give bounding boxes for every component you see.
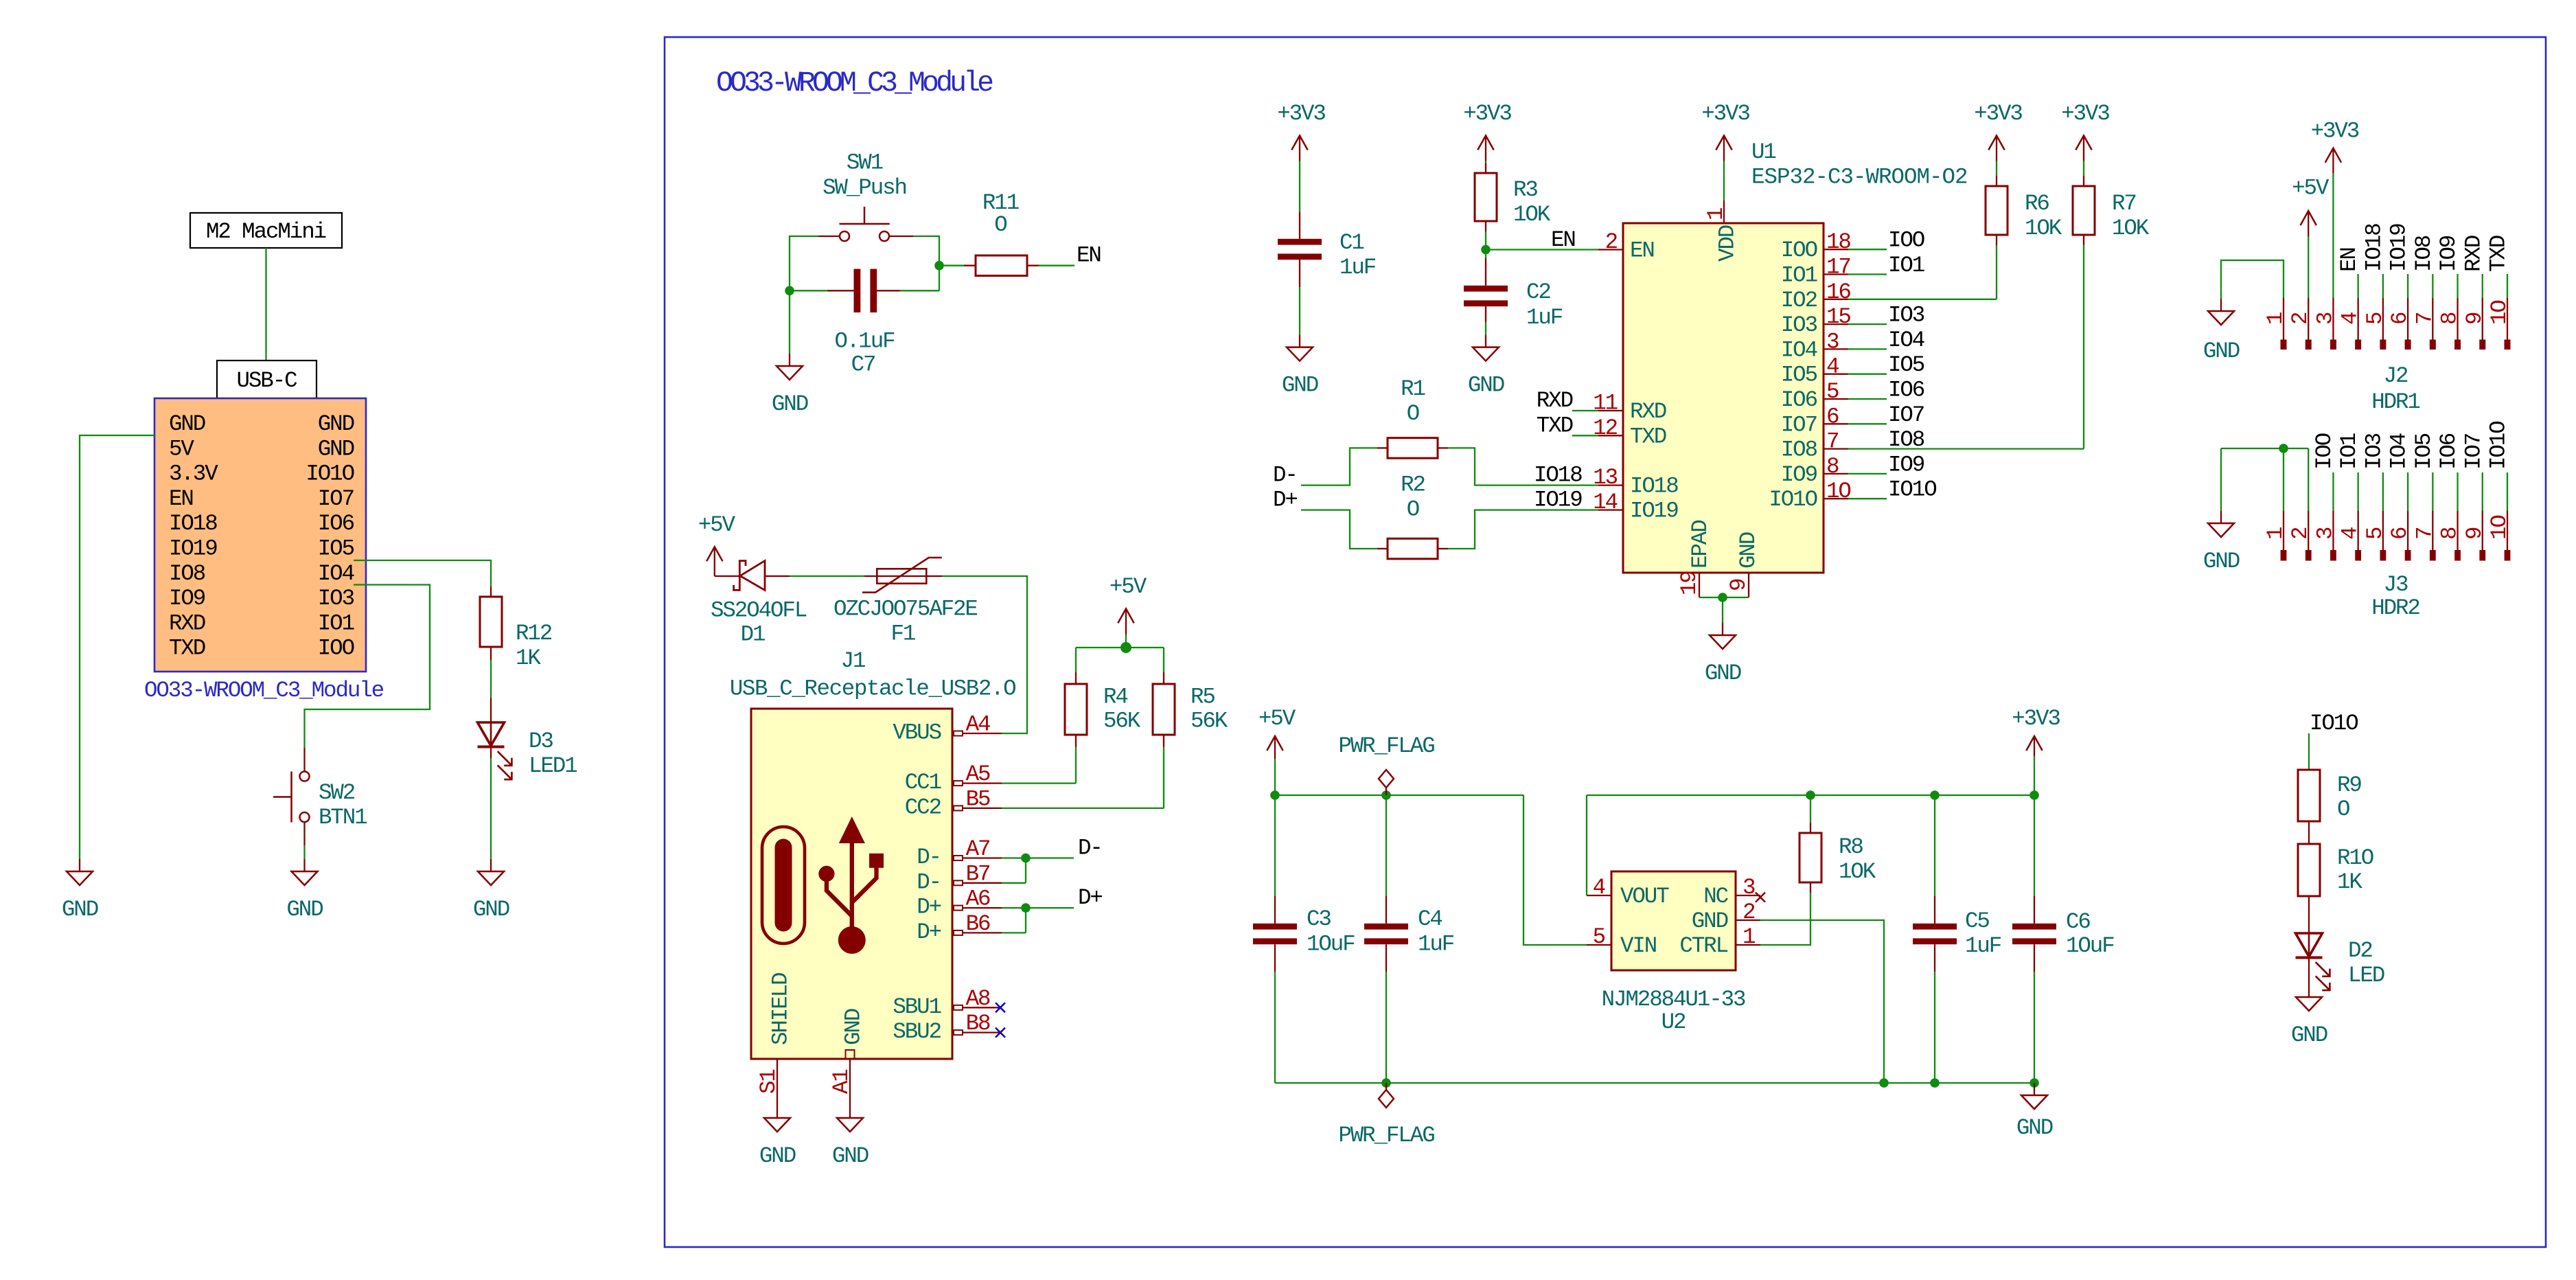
resistor R3 10K xyxy=(1485,163,1486,173)
svg-text:IO5: IO5 xyxy=(2411,433,2437,470)
wire U1 IO8 to R7 xyxy=(1848,448,2084,449)
svg-text:J3: J3 xyxy=(2384,572,2408,597)
no-connect X at J1 SBU2 xyxy=(996,1028,1005,1038)
block M2 MacMini xyxy=(190,213,342,248)
wire module IO4 to SW2 xyxy=(305,585,430,748)
wire C7 to ground xyxy=(789,290,790,354)
svg-text:IO5: IO5 xyxy=(318,536,354,562)
svg-text:1: 1 xyxy=(2263,312,2288,325)
U2 pin 4 VOUT xyxy=(1587,895,1611,896)
svg-text:A6: A6 xyxy=(966,887,990,912)
wire M2 MacMini to USB-C xyxy=(265,248,266,361)
svg-text:VDD: VDD xyxy=(1715,225,1740,262)
svg-text:U1: U1 xyxy=(1751,139,1775,165)
svg-text:SHIELD: SHIELD xyxy=(768,973,794,1045)
svg-text:1OK: 1OK xyxy=(2025,216,2062,241)
no-connect X at J1 SBU1 xyxy=(996,1003,1005,1012)
svg-text:D-: D- xyxy=(1078,836,1102,861)
svg-text:1OK: 1OK xyxy=(2112,216,2150,241)
svg-text:USB_C_Receptacle_USB2.O: USB_C_Receptacle_USB2.O xyxy=(730,676,1015,702)
svg-text:D+: D+ xyxy=(1078,885,1102,911)
svg-text:D+: D+ xyxy=(917,919,941,945)
J1 pin B5 CC2 xyxy=(954,805,1002,810)
power +3V3 above U1 VDD xyxy=(1716,135,1732,161)
svg-text:6: 6 xyxy=(2387,312,2413,325)
U1 pin 14 IO19 xyxy=(1598,509,1623,510)
wire module GND to ground xyxy=(80,435,154,859)
U1 pin 3 IO4 xyxy=(1824,348,1848,350)
svg-text:1K: 1K xyxy=(2337,869,2362,895)
junction C6 top xyxy=(2029,790,2039,800)
svg-text:C1: C1 xyxy=(1339,230,1364,255)
USB logo xyxy=(762,816,884,954)
svg-text:IO8: IO8 xyxy=(169,561,205,586)
ground for D3 xyxy=(478,859,504,885)
svg-text:IO7: IO7 xyxy=(1781,412,1817,437)
svg-text:A1: A1 xyxy=(829,1070,854,1094)
wire J2 pin 6 label stub xyxy=(2407,274,2408,298)
svg-text:RXD: RXD xyxy=(1537,388,1573,413)
U1 pin 13 IO18 xyxy=(1598,484,1623,485)
svg-text:1: 1 xyxy=(1703,208,1729,220)
wire C1 to ground xyxy=(1299,287,1300,335)
svg-text:IO19: IO19 xyxy=(169,536,217,562)
svg-text:IO6: IO6 xyxy=(318,511,354,536)
U2 pin 5 VIN xyxy=(1587,944,1611,946)
svg-text:VIN: VIN xyxy=(1620,933,1656,959)
J1 pin S1 SHIELD xyxy=(777,1059,778,1106)
svg-text:1O: 1O xyxy=(1826,479,1850,504)
power +5V above C3 xyxy=(1267,736,1283,759)
svg-text:R9: R9 xyxy=(2337,773,2361,798)
svg-text:TXD: TXD xyxy=(169,636,205,661)
J3 pin 7 xyxy=(2432,511,2433,550)
wire D1 to F1 xyxy=(790,575,864,577)
resistor R10 1K xyxy=(2298,844,2320,896)
U1 pin 2 EN xyxy=(1598,249,1623,250)
svg-text:O: O xyxy=(1407,401,1419,426)
svg-text:TXD: TXD xyxy=(2485,236,2511,272)
svg-text:1O: 1O xyxy=(2487,516,2512,540)
J1 pin B8 SBU2 xyxy=(954,1030,1002,1035)
junction PWR_FLAG bottom xyxy=(1381,1078,1391,1088)
regulator U2 NJM2884U1-33 body xyxy=(1611,871,1736,970)
svg-text:A4: A4 xyxy=(966,712,990,738)
svg-text:19: 19 xyxy=(1677,571,1702,595)
svg-text:1uF: 1uF xyxy=(1526,305,1563,330)
svg-text:EN: EN xyxy=(1077,243,1101,268)
svg-text:8: 8 xyxy=(1826,454,1839,479)
svg-text:RXD: RXD xyxy=(169,610,205,636)
capacitor C3 10uF xyxy=(1274,795,1276,896)
svg-text:5: 5 xyxy=(2362,312,2388,325)
resistor R7 10K xyxy=(2083,176,2084,186)
U1 pin 12 TXD xyxy=(1598,435,1623,436)
wire SW1 right to R11 node xyxy=(914,236,939,290)
svg-text:8: 8 xyxy=(2437,527,2463,540)
svg-text:IO3: IO3 xyxy=(2361,433,2387,470)
resistor R4 56K xyxy=(1075,648,1077,672)
svg-text:2: 2 xyxy=(1605,229,1618,255)
svg-text:USB-C: USB-C xyxy=(236,368,297,393)
svg-text:EN: EN xyxy=(1630,238,1654,264)
junction D+ xyxy=(1021,903,1031,913)
power +3V3 above R7 xyxy=(2075,135,2091,161)
svg-text:GND: GND xyxy=(832,1143,869,1169)
resistor R2 0 xyxy=(1377,548,1388,549)
svg-text:IOO: IOO xyxy=(1888,228,1924,253)
svg-text:6: 6 xyxy=(2387,527,2413,540)
J2 pin 1 xyxy=(2283,298,2284,340)
svg-text:D3: D3 xyxy=(529,729,553,754)
svg-text:O: O xyxy=(994,212,1007,238)
svg-text:1uF: 1uF xyxy=(1339,255,1376,280)
svg-text:D1: D1 xyxy=(741,622,765,648)
svg-text:GND: GND xyxy=(772,391,808,417)
svg-text:IO6: IO6 xyxy=(1888,378,1924,403)
svg-text:SBU2: SBU2 xyxy=(893,1019,941,1044)
U1 pin 7 IO8 xyxy=(1824,448,1848,449)
svg-text:BTN1: BTN1 xyxy=(319,805,367,830)
J2 pin 2 xyxy=(2308,298,2309,340)
wire R11 to EN label xyxy=(1039,265,1074,266)
svg-text:LED1: LED1 xyxy=(529,753,577,779)
svg-text:EN: EN xyxy=(1551,227,1575,253)
wire J3 ground drop xyxy=(2220,448,2222,511)
svg-text:D-: D- xyxy=(917,869,941,895)
svg-text:NJM2884U1-33: NJM2884U1-33 xyxy=(1602,987,1745,1012)
wire J2 pin 7 label stub xyxy=(2432,274,2433,298)
wire R8 to U2 CTRL xyxy=(1760,893,1810,945)
svg-text:6: 6 xyxy=(1826,404,1839,429)
svg-text:GND: GND xyxy=(318,436,354,461)
power +3V3 above C6 xyxy=(2026,736,2042,756)
svg-text:GND: GND xyxy=(759,1143,796,1169)
svg-text:IO1: IO1 xyxy=(1888,253,1924,278)
svg-text:2: 2 xyxy=(2288,312,2313,325)
wire J1 D- pair xyxy=(1002,857,1074,858)
svg-text:16: 16 xyxy=(1826,279,1850,305)
svg-text:GND: GND xyxy=(1692,908,1728,934)
svg-text:D+: D+ xyxy=(917,895,941,920)
svg-text:A8: A8 xyxy=(966,986,990,1012)
svg-text:9: 9 xyxy=(2462,527,2487,540)
svg-text:13: 13 xyxy=(1593,465,1617,490)
power +3V3 above R3 xyxy=(1477,135,1493,161)
svg-text:GND: GND xyxy=(2203,339,2240,364)
svg-text:NC: NC xyxy=(1703,884,1728,909)
junction +5V R4R5 xyxy=(1120,642,1131,653)
power +3V3 above C1 xyxy=(1291,135,1307,161)
svg-text:C7: C7 xyxy=(851,352,875,378)
resistor R1 0 xyxy=(1377,447,1388,448)
svg-text:5: 5 xyxy=(1826,379,1839,404)
svg-text:11: 11 xyxy=(1593,391,1617,416)
svg-text:8: 8 xyxy=(2437,312,2463,325)
power +3V3 at J2 pin3 xyxy=(2325,148,2341,174)
capacitor C1 1uF xyxy=(1299,212,1300,239)
wire U1 IO0 stub xyxy=(1848,249,1887,250)
wire +5V rail to U2 VIN xyxy=(1523,795,1587,945)
wire J2 pin 9 label stub xyxy=(2482,274,2483,298)
svg-text:1O: 1O xyxy=(2487,301,2512,325)
svg-text:R4: R4 xyxy=(1103,685,1127,710)
svg-text:+3V3: +3V3 xyxy=(1701,101,1749,126)
wire D3 to ground xyxy=(490,758,492,859)
svg-text:D2: D2 xyxy=(2348,938,2372,963)
J2 pin 7 xyxy=(2432,298,2433,340)
junction +5V C3 xyxy=(1270,790,1280,800)
svg-text:IO4: IO4 xyxy=(2387,433,2412,470)
wire U1 IO2 to R6 xyxy=(1848,299,1997,300)
resistor R6 10K xyxy=(1996,176,1997,186)
svg-text:2: 2 xyxy=(1743,900,1755,925)
ground for D2 xyxy=(2296,985,2322,1011)
svg-text:12: 12 xyxy=(1593,415,1617,441)
svg-text:RXD: RXD xyxy=(1630,399,1666,424)
wire J1 CC1 to R4 xyxy=(1002,782,1076,784)
svg-text:GND: GND xyxy=(2203,549,2240,574)
J3 pin 8 xyxy=(2457,511,2458,550)
svg-text:D-: D- xyxy=(917,845,941,870)
svg-text:3: 3 xyxy=(2312,312,2338,325)
wire J3 pin 7 label stub xyxy=(2432,472,2433,511)
svg-text:EN: EN xyxy=(2336,248,2362,272)
J3 pin 4 xyxy=(2358,511,2359,550)
wire EN node to U1 EN pin xyxy=(1486,249,1598,250)
svg-text:IO3: IO3 xyxy=(318,586,354,611)
svg-text:1: 1 xyxy=(2263,527,2288,540)
svg-text:IO1O: IO1O xyxy=(1888,477,1936,503)
ground for C1 xyxy=(1287,335,1313,361)
wire R7 to IO8 net xyxy=(2083,245,2084,449)
ground for J1 GND pin xyxy=(837,1106,863,1132)
svg-text:OO33-WROOM_C3_Module: OO33-WROOM_C3_Module xyxy=(144,678,384,703)
J3 pin 6 xyxy=(2407,511,2408,550)
svg-text:IO1: IO1 xyxy=(318,610,354,636)
power +5V at J2 pin2 xyxy=(2301,211,2316,237)
wire F1 to J1 VBUS xyxy=(942,576,1027,733)
svg-text:1uF: 1uF xyxy=(1965,933,2001,959)
J1 pin A6 D+ xyxy=(954,906,1002,911)
resistor R11 0 xyxy=(939,265,964,266)
svg-text:4: 4 xyxy=(2338,527,2363,540)
svg-text:R8: R8 xyxy=(1839,834,1863,860)
wire R2 to U1 IO19 xyxy=(1448,510,1598,549)
svg-text:IO6: IO6 xyxy=(2436,433,2461,470)
wire TXD label to U1 xyxy=(1572,435,1598,436)
svg-text:S1: S1 xyxy=(756,1070,781,1094)
wire 3V3 rail xyxy=(1587,795,2034,796)
svg-text:TXD: TXD xyxy=(1630,424,1666,449)
svg-text:O: O xyxy=(2337,797,2349,822)
svg-text:PWR_FLAG: PWR_FLAG xyxy=(1338,1123,1434,1148)
capacitor C2 1uF xyxy=(1485,250,1486,259)
wire J3 pin 9 label stub xyxy=(2482,472,2483,511)
wire IO10 to R9 xyxy=(2308,733,2310,770)
svg-text:IO3: IO3 xyxy=(1888,303,1924,328)
svg-text:HDR1: HDR1 xyxy=(2371,389,2419,415)
J3 pin 3 xyxy=(2332,511,2334,550)
fuse F1 0ZCJ0075AF2E xyxy=(862,558,942,593)
J2 pin 4 xyxy=(2358,298,2359,340)
svg-text:RXD: RXD xyxy=(2461,236,2486,272)
svg-text:4: 4 xyxy=(1826,354,1839,380)
junction at C7 left xyxy=(785,286,794,296)
U1 pin 15 IO3 xyxy=(1824,323,1848,325)
svg-text:IO6: IO6 xyxy=(1781,387,1817,413)
svg-text:R6: R6 xyxy=(2025,191,2049,216)
svg-text:7: 7 xyxy=(2412,313,2437,325)
resistor R8 10K xyxy=(1810,795,1811,823)
J3 pin 9 xyxy=(2482,511,2483,550)
J3 pin 2 xyxy=(2308,511,2309,550)
U1 pin 5 IO6 xyxy=(1824,398,1848,400)
resistor R12 xyxy=(490,586,492,597)
wire J3 pins 1-2 to ground xyxy=(2221,448,2308,449)
svg-text:IO18: IO18 xyxy=(1534,463,1582,488)
svg-text:C2: C2 xyxy=(1526,279,1550,305)
U1 pin 11 RXD xyxy=(1598,410,1623,411)
U2 pin 1 CTRL xyxy=(1736,944,1760,946)
J3 pin 5 xyxy=(2382,511,2384,550)
wire D2 to ground xyxy=(2308,957,2310,985)
svg-text:+3V3: +3V3 xyxy=(1277,101,1325,126)
svg-text:IO5: IO5 xyxy=(1781,363,1817,388)
svg-text:GND: GND xyxy=(473,897,509,922)
svg-text:IO19: IO19 xyxy=(1630,499,1678,524)
svg-text:U2: U2 xyxy=(1661,1009,1686,1035)
svg-text:ESP32-C3-WROOM-O2: ESP32-C3-WROOM-O2 xyxy=(1751,164,1968,190)
svg-text:B7: B7 xyxy=(966,861,990,887)
svg-text:SS2O4OFL: SS2O4OFL xyxy=(711,598,807,624)
J3 pin 10 xyxy=(2507,511,2508,550)
svg-text:IO5: IO5 xyxy=(1888,352,1924,378)
svg-text:VBUS: VBUS xyxy=(893,720,941,746)
svg-text:IO1: IO1 xyxy=(2336,433,2362,470)
ground for module GND xyxy=(67,859,93,885)
svg-text:+3V3: +3V3 xyxy=(2311,119,2359,144)
svg-text:IO3: IO3 xyxy=(1781,312,1817,338)
svg-text:GND: GND xyxy=(318,411,354,437)
svg-text:4: 4 xyxy=(1593,875,1605,900)
svg-text:VOUT: VOUT xyxy=(1620,884,1669,909)
power flag bottom xyxy=(1379,1083,1394,1108)
svg-text:OO33-WROOM_C3_Module: OO33-WROOM_C3_Module xyxy=(716,67,993,100)
svg-text:IO18: IO18 xyxy=(169,511,217,536)
U1 pin 6 IO7 xyxy=(1824,423,1848,424)
ground for C7 xyxy=(777,354,803,380)
svg-text:+3V3: +3V3 xyxy=(1974,101,2022,126)
wire J3 pin 3 label stub xyxy=(2332,472,2334,511)
J2 pin 8 xyxy=(2457,298,2458,340)
J2 pin 5 xyxy=(2382,298,2384,340)
svg-text:+5V: +5V xyxy=(1109,574,1147,599)
svg-text:IO9: IO9 xyxy=(1781,462,1817,488)
svg-text:56K: 56K xyxy=(1103,708,1141,733)
wire J2 pin 5 label stub xyxy=(2382,274,2384,298)
ground for J1 SHIELD xyxy=(764,1106,790,1132)
svg-text:+3V3: +3V3 xyxy=(2061,101,2109,126)
wire D+ to R2 xyxy=(1301,510,1377,549)
svg-text:1OK: 1OK xyxy=(1839,859,1876,884)
U2 pin 2 GND xyxy=(1736,919,1760,921)
svg-text:15: 15 xyxy=(1826,304,1850,330)
J1 pin A7 D- xyxy=(954,856,1002,860)
svg-text:1OK: 1OK xyxy=(1513,202,1551,227)
svg-text:IO9: IO9 xyxy=(169,586,205,611)
svg-text:GND: GND xyxy=(169,411,205,437)
svg-text:A5: A5 xyxy=(966,762,990,787)
svg-text:R3: R3 xyxy=(1513,177,1537,203)
svg-text:R1: R1 xyxy=(1401,376,1425,402)
svg-text:C4: C4 xyxy=(1418,906,1442,932)
svg-text:1uF: 1uF xyxy=(1418,932,1454,957)
svg-text:GND: GND xyxy=(841,1009,866,1045)
wire J3 pin 8 label stub xyxy=(2457,472,2458,511)
wire U1 IO5 stub xyxy=(1848,374,1887,375)
capacitor C4 1uF xyxy=(1385,795,1387,896)
svg-text:O: O xyxy=(1407,497,1419,523)
svg-text:GND: GND xyxy=(1736,532,1761,569)
wire U1 IO7 stub xyxy=(1848,423,1887,424)
svg-text:GND: GND xyxy=(1282,373,1318,398)
svg-text:IO7: IO7 xyxy=(318,486,354,512)
svg-text:OZCJOO75AF2E: OZCJOO75AF2E xyxy=(833,596,977,621)
svg-text:IO1: IO1 xyxy=(1781,263,1817,288)
svg-text:1: 1 xyxy=(1743,924,1755,950)
power +5V above R4 R5 xyxy=(1118,608,1134,635)
U1 pin 4 IO5 xyxy=(1824,374,1848,375)
U1 pin 17 IO1 xyxy=(1824,273,1848,275)
no-connect X at U2 NC xyxy=(1756,893,1765,902)
J2 pin 9 xyxy=(2482,298,2483,340)
switch SW2 BTN1 xyxy=(273,748,310,845)
ground for J2 xyxy=(2208,299,2234,325)
svg-text:PWR_FLAG: PWR_FLAG xyxy=(1338,733,1434,759)
svg-text:J1: J1 xyxy=(841,648,865,674)
svg-text:IO1O: IO1O xyxy=(306,461,354,487)
op-amp U1 ESP32-C3-WROOM-02 body xyxy=(1623,223,1824,573)
svg-text:IO9: IO9 xyxy=(1888,452,1924,477)
wire R3 to EN node xyxy=(1485,231,1486,250)
svg-text:B5: B5 xyxy=(966,786,990,812)
junction under U1 xyxy=(1718,593,1727,602)
svg-text:9: 9 xyxy=(2462,312,2487,325)
wire J2 pin 10 label stub xyxy=(2507,274,2508,298)
U2 pin 3 NC xyxy=(1736,895,1760,896)
LED D2 xyxy=(2296,933,2330,990)
ground for C2 xyxy=(1473,335,1499,361)
svg-text:CC2: CC2 xyxy=(905,795,941,820)
J1 pin B6 D+ xyxy=(954,930,1002,935)
wire SW1 left to C7 xyxy=(790,236,818,290)
junction at R11 node xyxy=(934,261,944,271)
svg-text:IOO: IOO xyxy=(1781,238,1817,263)
svg-text:GND: GND xyxy=(2016,1115,2053,1141)
svg-text:EPAD: EPAD xyxy=(1688,521,1713,569)
svg-text:1K: 1K xyxy=(516,645,541,671)
svg-text:IO1O: IO1O xyxy=(2485,422,2511,470)
J1 pin A5 CC1 xyxy=(954,781,1002,786)
wire U1 IO10 stub xyxy=(1848,498,1887,499)
U1 pin 1 VDD xyxy=(1723,201,1725,223)
junction C6 bottom xyxy=(2029,1078,2039,1088)
svg-text:IO2: IO2 xyxy=(1781,288,1817,313)
power +3V3 above R6 xyxy=(1988,135,2004,161)
svg-text:9: 9 xyxy=(1726,579,1751,591)
capacitor C7 0.1uF xyxy=(790,290,827,291)
